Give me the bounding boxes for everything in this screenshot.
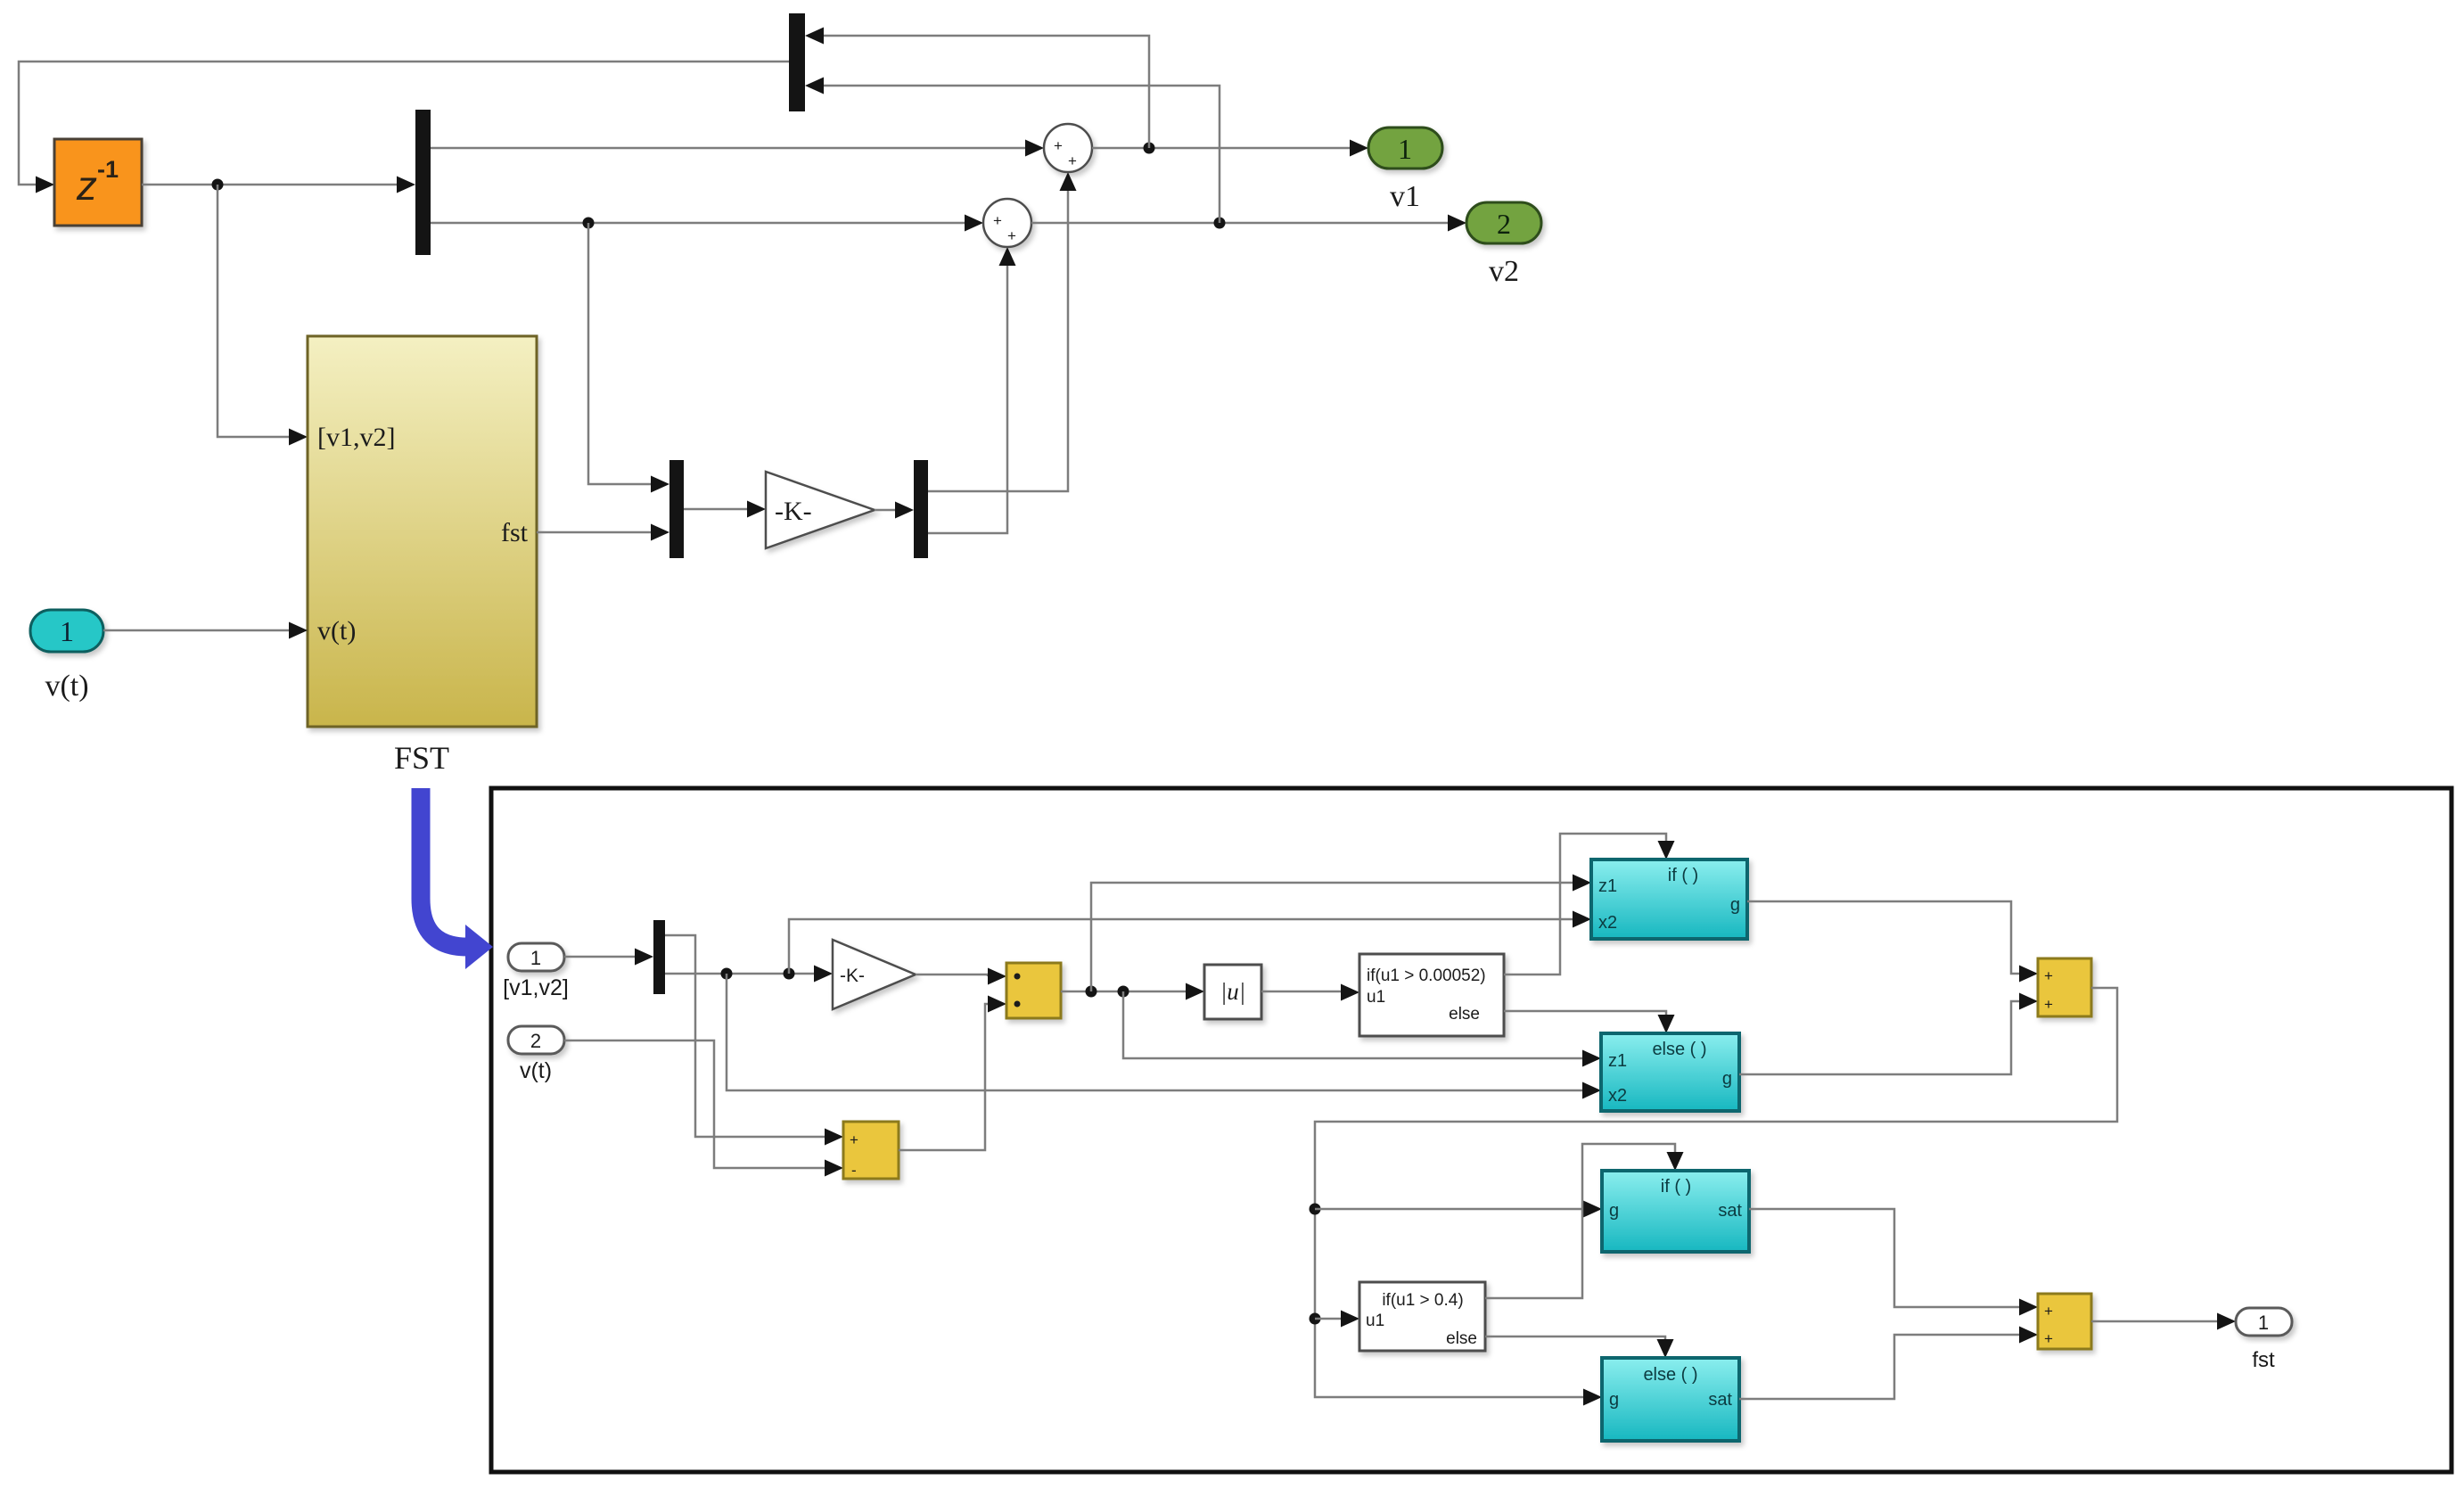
outport v1 oval 1 [1368, 127, 1442, 169]
inport 2 oval v(t) [508, 1026, 564, 1054]
wire Gain1 to Mux3 [875, 509, 895, 512]
svg-text:if(u1 > 0.00052): if(u1 > 0.00052) [1367, 966, 1486, 985]
wire Mux3 out1 to Sum1 bottom [928, 191, 1068, 491]
wire junction up to if-subsystem x2 [789, 919, 1573, 974]
svg-text:g: g [1609, 1201, 1619, 1221]
svg-text:v1: v1 [1390, 180, 1420, 213]
svg-text:g: g [1609, 1390, 1619, 1410]
junction on v2 line [1214, 218, 1226, 229]
wire Subtract out to Product in2 [899, 1004, 988, 1150]
svg-text:v(t): v(t) [520, 1058, 552, 1083]
wire Mux3 out2 to Sum2 bottom [928, 266, 1007, 533]
wire Demux2 out1 to Subtract in1 [665, 935, 825, 1137]
wire FST fst output to Mux2 input2 [537, 531, 651, 534]
mux Mux1 feedback [789, 13, 805, 111]
svg-text:fst: fst [501, 518, 529, 547]
svg-text:u1: u1 [1366, 1312, 1384, 1330]
svg-text:2: 2 [530, 1030, 541, 1052]
inport v(t) oval 1 [30, 610, 103, 652]
svg-text:u1: u1 [1367, 988, 1385, 1007]
svg-text:z: z [76, 162, 97, 209]
svg-text:+: + [2044, 1303, 2053, 1320]
wire Abs to If1 u1 [1261, 991, 1341, 993]
gain block Gain2 -K- [833, 940, 916, 1009]
if action subsystem (z1,x2,g) [1591, 859, 1747, 939]
wire feedback from Mux1 output to Unit Delay input [19, 62, 789, 185]
wire If2 else-out to else-sat trigger [1485, 1336, 1665, 1339]
svg-text:+: + [2044, 967, 2053, 984]
svg-text:+: + [1068, 152, 1077, 169]
wire junction down to else-subsystem x2 [727, 974, 1582, 1090]
svg-text:x2: x2 [1598, 913, 1617, 933]
if block If2 u1>0.4 [1359, 1282, 1485, 1351]
svg-text:[v1,v2]: [v1,v2] [503, 975, 569, 1000]
junction Product out up [1086, 986, 1097, 998]
else action subsystem sat (g,sat) [1602, 1358, 1739, 1441]
wire junction to FST input [v1,v2] [218, 185, 289, 437]
blue callout arrow from FST to subsystem [421, 788, 493, 969]
wire v1 junction to Mux1 input1 [824, 36, 1149, 148]
svg-text:2: 2 [1497, 208, 1511, 240]
outport fst oval 1 [2236, 1308, 2292, 1336]
wire junction to Mux2 input1 [588, 223, 651, 484]
wire else-subsystem g to Add1 in2 [1739, 1001, 2019, 1074]
inport 1 oval [v1,v2] [508, 943, 564, 971]
svg-text:1: 1 [2258, 1312, 2269, 1334]
if action subsystem sat (g,sat) [1602, 1171, 1749, 1252]
svg-text:v(t): v(t) [45, 670, 88, 703]
add block Add1 [2038, 958, 2091, 1016]
product block Product [1006, 963, 1061, 1018]
svg-text:+: + [993, 212, 1002, 229]
svg-text:else ( ): else ( ) [1643, 1365, 1697, 1385]
subsystem boundary box [491, 788, 2452, 1472]
wire inport2 to Subtract in2 [564, 1040, 825, 1168]
svg-text:z1: z1 [1608, 1051, 1627, 1071]
svg-text:v(t): v(t) [317, 616, 356, 646]
junction lower-left to If2 u1 [1310, 1313, 1321, 1325]
svg-text:1: 1 [1398, 133, 1412, 165]
svg-text:v2: v2 [1489, 255, 1519, 288]
svg-text:if ( ): if ( ) [1661, 1177, 1691, 1197]
abs block |u| [1204, 965, 1261, 1019]
wire v2 junction to Mux1 input2 [824, 86, 1220, 223]
if block If1 u1>0.00052 [1359, 954, 1504, 1036]
svg-text:g: g [1730, 895, 1740, 915]
junction to if x2 [784, 968, 795, 980]
wire If1 else-out to else-subsystem trigger [1504, 1011, 1666, 1015]
wire if-subsystem g to Add1 in1 [1747, 901, 2019, 974]
svg-text:if(u1 > 0.4): if(u1 > 0.4) [1382, 1291, 1463, 1310]
wire if-sat out to Add2 in1 [1749, 1209, 2019, 1307]
subtract block Sum3 +- [843, 1122, 899, 1179]
wire Gain2 to Product in1 [916, 975, 988, 976]
mux Mux2 [669, 460, 684, 558]
junction on v1 line [1144, 143, 1155, 154]
svg-text:else: else [1446, 1329, 1477, 1348]
demux Demux2 [653, 920, 665, 994]
wire Demux1 out1 to Sum1 [431, 147, 1025, 150]
junction Product out down [1118, 986, 1129, 998]
wire If2 if-out to if-sat trigger [1485, 1144, 1675, 1298]
wire Mux2 to Gain1 [684, 508, 747, 511]
wire junction to If2 u1 [1315, 1318, 1341, 1320]
svg-text:g: g [1722, 1069, 1732, 1089]
wire Sum1 to outport v1 [1092, 147, 1350, 150]
wire If1 if-out to if-subsystem trigger [1504, 834, 1666, 975]
unit delay block Z^-1 [54, 139, 142, 226]
wire Sum2 to outport v2 [1031, 222, 1448, 225]
svg-text:else ( ): else ( ) [1652, 1040, 1706, 1059]
wire Demux2 out2 to Gain2 [665, 973, 814, 975]
wire inport v(t) to FST [103, 629, 289, 632]
wire junction up to if-subsystem z1 [1091, 883, 1573, 991]
svg-text:fst: fst [2252, 1348, 2275, 1372]
wire junction to if-sat g [1315, 1208, 1583, 1211]
svg-text:else: else [1449, 1005, 1480, 1024]
sum block Sum1 [1044, 124, 1092, 172]
svg-text:-K-: -K- [840, 966, 865, 986]
svg-text:FST: FST [394, 740, 449, 776]
junction on Demux1 out2 [583, 218, 595, 229]
svg-text:[v1,v2]: [v1,v2] [317, 423, 395, 452]
wire junction down to else-subsystem z1 [1123, 991, 1582, 1058]
wire else-sat out to Add2 in2 [1739, 1335, 2019, 1399]
outport v2 oval 2 [1466, 202, 1541, 243]
svg-text:+: + [2044, 996, 2053, 1013]
svg-text:x2: x2 [1608, 1086, 1627, 1106]
demux Demux1 [415, 110, 431, 255]
junction lower-left to if-sat g [1310, 1204, 1321, 1215]
svg-text:|u|: |u| [1220, 978, 1245, 1005]
else action subsystem (z1,x2,g) [1601, 1033, 1739, 1111]
svg-text:sat: sat [1718, 1201, 1742, 1221]
subsystem block FST [308, 336, 537, 727]
gain block Gain1 -K- [766, 472, 875, 548]
svg-text:1: 1 [530, 947, 541, 969]
add block Add2 [2038, 1294, 2091, 1349]
junction to else x2 [721, 968, 733, 980]
wire Unit Delay output to Demux1 [142, 184, 397, 186]
svg-text:1: 1 [60, 615, 74, 647]
svg-text:-1: -1 [97, 156, 119, 183]
svg-text:-K-: -K- [775, 497, 812, 526]
wire Demux1 out2 to Sum2 [431, 222, 965, 225]
svg-text:if ( ): if ( ) [1668, 866, 1698, 885]
wire Add1 out down-left to lower chain [1315, 988, 2117, 1397]
junction on Z^-1 output [212, 179, 224, 191]
svg-text:-: - [851, 1162, 857, 1179]
wire Add2 to outport fst [2091, 1320, 2217, 1323]
wire Product to Abs [1061, 991, 1186, 993]
svg-text:+: + [2044, 1330, 2053, 1347]
svg-text:z1: z1 [1598, 876, 1617, 896]
svg-text:sat: sat [1708, 1390, 1732, 1410]
svg-text:+: + [1007, 227, 1016, 244]
svg-text:+: + [850, 1131, 858, 1148]
svg-text:+: + [1054, 137, 1063, 154]
mux Mux3 [914, 460, 928, 558]
sum block Sum2 [983, 199, 1031, 247]
wire inport1 to Demux2 [564, 956, 635, 958]
